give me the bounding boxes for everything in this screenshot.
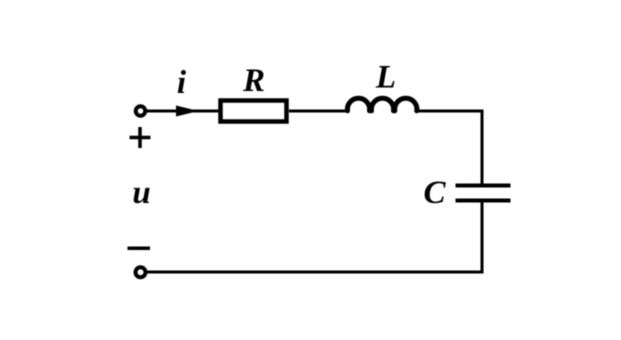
resistor R [221, 101, 287, 122]
plus sign [130, 127, 151, 148]
inductor L [347, 98, 416, 111]
wire inductor to top-right corner and down to capacitor [415, 111, 482, 184]
current arrow [176, 106, 199, 117]
capacitor C plates [456, 186, 511, 201]
svg-text:u: u [132, 175, 150, 211]
svg-text:L: L [375, 60, 396, 96]
wire terminal to resistor [147, 110, 219, 113]
terminal top-left [136, 106, 146, 116]
svg-text:i: i [177, 65, 187, 101]
svg-text:R: R [242, 63, 265, 99]
terminal bottom-left [136, 267, 146, 277]
svg-text:C: C [423, 175, 446, 211]
minus sign [128, 247, 151, 251]
wire resistor to inductor [289, 110, 349, 113]
wire capacitor down and bottom rail to terminal [147, 203, 482, 273]
